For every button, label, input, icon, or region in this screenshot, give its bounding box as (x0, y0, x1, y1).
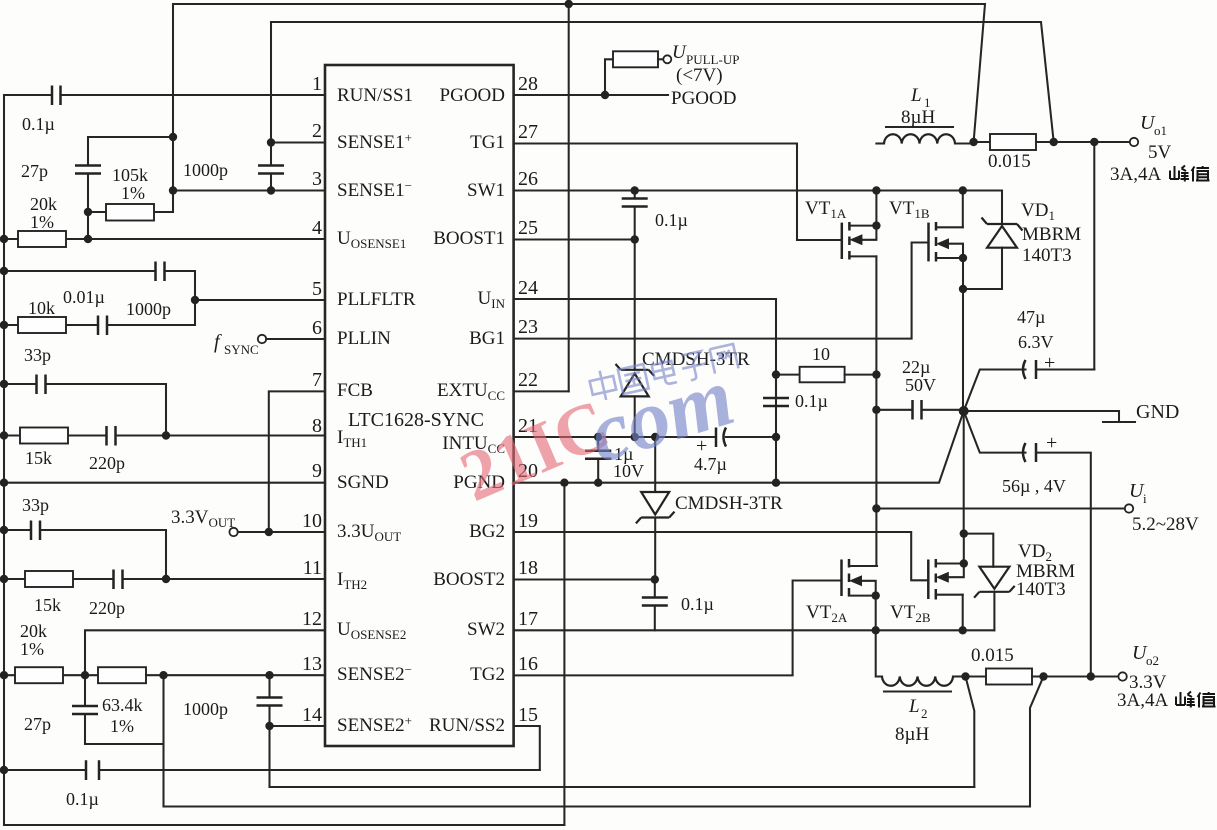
resistor 15k (ITH1) (4, 434, 107, 436)
resistor 20k 1% (divider 2) (4, 674, 98, 676)
resistor 105k 1% (88, 191, 173, 213)
resistor 0.015 sense 2 (966, 675, 987, 677)
capacitor 27p (divider 1) (75, 166, 101, 174)
svg-text:5: 5 (312, 278, 322, 300)
wire pin16 TG2 route to VT2A gate (514, 581, 842, 676)
wire pin5 PLLFLTR row (195, 299, 325, 301)
wire pin25 BOOST1 row (514, 238, 635, 240)
wire GND star to GND terminal (964, 410, 1119, 412)
resistor pull-up (613, 51, 658, 67)
svg-text:18: 18 (518, 557, 538, 579)
capacitor 27p (divider 2) (85, 675, 164, 744)
svg-text:3: 3 (312, 168, 322, 190)
svg-text:PLLFLTR: PLLFLTR (337, 289, 416, 310)
svg-text:SW2: SW2 (467, 619, 505, 640)
capacitor 1u 10V (597, 437, 599, 483)
wire VT2B drain down to SW2 row (962, 595, 964, 631)
wire pin24 UIN row (514, 299, 776, 398)
ground symbol (1103, 411, 1135, 422)
diode CMDSH-3TR (boost1) (621, 374, 649, 397)
junction dots left side (0, 235, 8, 243)
svg-text:0.1µ: 0.1µ (66, 789, 99, 809)
wire Ui input row (876, 507, 1125, 509)
wire kelvin sense2+ return row (270, 786, 975, 788)
svg-text:24: 24 (518, 277, 538, 299)
wire pin15 RUN/SS2 route (514, 726, 540, 770)
svg-text:GND: GND (1136, 401, 1179, 423)
svg-text:BG2: BG2 (469, 521, 505, 542)
svg-text:+: + (1044, 352, 1055, 374)
svg-text:SGND: SGND (337, 472, 389, 493)
wire pin17 SW2 row (514, 629, 995, 631)
capacitor 56u 4V output 2 (964, 411, 1026, 453)
wire kelvin sense2- return row (164, 805, 1031, 807)
svg-text:0.015: 0.015 (971, 645, 1014, 666)
node UPULL-UP terminal (663, 55, 671, 63)
watermark blue chinese characters (588, 341, 739, 403)
svg-text:56µ , 4V: 56µ , 4V (1002, 476, 1066, 496)
svg-text:140T3: 140T3 (1016, 579, 1066, 600)
diode VD1 MBRM140T3 (963, 191, 1002, 290)
resistor 20k 1% (divider 1) (4, 238, 325, 240)
svg-text:0.1µ: 0.1µ (795, 391, 828, 411)
svg-text:1%: 1% (30, 212, 54, 232)
capacitor 22u 50V (876, 409, 912, 411)
svg-text:220p: 220p (89, 598, 125, 618)
wire VT1B drain to SW1 row (962, 191, 964, 228)
svg-text:3A,4A: 3A,4A (1117, 690, 1168, 711)
svg-text:o2: o2 (1146, 653, 1159, 668)
svg-text:63.4k: 63.4k (102, 695, 143, 715)
svg-text:25: 25 (518, 217, 538, 239)
wire top SENSE1- kelvin rail (173, 4, 985, 142)
svg-text:MBRM: MBRM (1022, 224, 1081, 245)
capacitor 220p (ITH2) (114, 570, 123, 590)
capacitor 0.1u boost1 (634, 191, 636, 240)
node Uo2 terminal (1118, 672, 1126, 680)
svg-text:1000p: 1000p (126, 299, 171, 319)
svg-text:SENSE1+: SENSE1+ (337, 130, 412, 153)
svg-text:10k: 10k (28, 298, 55, 318)
svg-text:(<7V): (<7V) (676, 65, 723, 86)
transistor VT2B (927, 560, 930, 600)
svg-text:26: 26 (518, 168, 538, 190)
node Uo1 terminal (1130, 138, 1138, 146)
svg-text:BOOST2: BOOST2 (433, 569, 505, 590)
wire second rail drop to pin2 (270, 22, 272, 191)
wire pin1 RUN/SS1 row (4, 94, 325, 96)
wire pin26 SW1 row (514, 189, 1002, 191)
svg-text:SYNC: SYNC (224, 342, 259, 357)
wire 0.01u row (4, 271, 195, 325)
capacitor 0.01u (156, 262, 165, 282)
svg-text:20k: 20k (30, 194, 57, 214)
IC U1 LTC1628-SYNC body (325, 65, 514, 746)
svg-text:1%: 1% (20, 639, 44, 659)
capacitor 1000p (sense filter 1) (258, 166, 284, 174)
resistor 63.4k 1% (divider 2) (98, 667, 146, 683)
svg-text:28: 28 (518, 73, 538, 95)
inductor L2 8uH (876, 630, 882, 676)
wire VT2A source down to SW2 row (875, 596, 877, 631)
svg-text:2: 2 (312, 120, 322, 142)
svg-text:3A,4A: 3A,4A (1110, 164, 1161, 185)
svg-text:5.2~28V: 5.2~28V (1132, 514, 1199, 535)
diode VD2 MBRM140T3 (964, 534, 994, 567)
inductor L1 8uH (876, 142, 884, 144)
wire pin14 SENSE2+ row (270, 725, 326, 727)
resistor 10k (4, 324, 98, 326)
wire pin27 TG1 route to VT1A gate (514, 144, 842, 241)
capacitor 1000p (PLL filter) (98, 316, 107, 336)
svg-text:15k: 15k (25, 448, 52, 468)
svg-text:15k: 15k (34, 595, 61, 615)
resistor 0.015 sense 1 (974, 141, 990, 143)
svg-text:PGOOD: PGOOD (671, 88, 736, 109)
transistor VT1A (841, 223, 844, 259)
svg-text:i: i (1143, 491, 1147, 506)
svg-text:105k: 105k (112, 165, 148, 185)
svg-text:L: L (910, 85, 922, 106)
svg-text:0.1µ: 0.1µ (681, 594, 714, 614)
svg-text:RUN/SS2: RUN/SS2 (429, 715, 505, 736)
svg-text:14: 14 (302, 704, 322, 726)
capacitor 33p (ITH1) (4, 384, 166, 436)
wire node branch at (173,137) to divider (88, 137, 173, 239)
svg-text:PLLIN: PLLIN (337, 328, 391, 349)
svg-text:1: 1 (312, 73, 322, 95)
wire GND column VD1 to star (962, 289, 964, 411)
wire pin7 FCB row and drop to 3.3Vout (269, 391, 325, 532)
svg-text:TG2: TG2 (470, 664, 505, 685)
capacitor 0.1u (VIN pin) (775, 398, 777, 483)
transistor VT1B (927, 223, 930, 262)
wire pin19 BG2 route to VT2B gate (514, 532, 929, 580)
svg-text:SW1: SW1 (467, 180, 505, 201)
capacitor 0.1u boost2 (654, 580, 656, 631)
svg-text:LTC1628-SYNC: LTC1628-SYNC (348, 409, 484, 431)
wire pin20 PGND row with diagonal to star (514, 411, 964, 483)
capacitor 220p (ITH1) (107, 426, 116, 446)
svg-text:23: 23 (518, 316, 538, 338)
svg-text:50V: 50V (905, 375, 936, 395)
capacitor 47u 6.3V output 1 (964, 370, 1026, 412)
svg-text:o1: o1 (1154, 123, 1167, 138)
capacitor 4.7u tantalum (716, 428, 726, 448)
wire pin12 UOSENSE2 row and drop (85, 630, 325, 675)
wire boost1 column down to CMDSH-3TR (634, 240, 636, 370)
label peak (Chinese) output 1 (1170, 166, 1210, 182)
svg-text:L: L (908, 696, 920, 717)
resistor 15k (ITH2) (4, 578, 114, 580)
label peak (Chinese) output 2 (1176, 692, 1216, 708)
svg-text:BOOST1: BOOST1 (433, 228, 505, 249)
svg-text:11: 11 (303, 557, 322, 579)
svg-text:20k: 20k (20, 621, 47, 641)
svg-text:0.015: 0.015 (988, 151, 1031, 172)
svg-text:4.7µ: 4.7µ (694, 454, 727, 474)
wire VT1A drain VIN rail (875, 256, 877, 566)
svg-text:33p: 33p (24, 345, 51, 365)
svg-text:22µ: 22µ (902, 357, 930, 377)
wire kelvin sense2+ drop (966, 677, 975, 788)
wire pin21 INTVCC row (514, 436, 716, 438)
wire pin22 EXTUCC row (514, 390, 569, 392)
node fSYNC terminal (258, 335, 266, 343)
junction dots channel 2 (960, 529, 968, 537)
node 3.3VOUT terminal (229, 528, 237, 536)
capacitor 33p (ITH2) (4, 530, 166, 579)
svg-text:15: 15 (518, 704, 538, 726)
wire pin3 SENSE1- row (173, 189, 325, 191)
wire VT1B source down to VD1 anode row (962, 258, 964, 289)
transistor VT2A (840, 560, 843, 597)
node Ui terminal (1125, 504, 1133, 512)
svg-text:6.3V: 6.3V (1018, 332, 1054, 352)
wire pin9 SGND row (4, 482, 325, 484)
svg-text:CMDSH-3TR: CMDSH-3TR (675, 493, 783, 514)
svg-text:10: 10 (812, 344, 830, 364)
wire soft-start2 row with 0.1u (4, 769, 540, 771)
svg-text:140T3: 140T3 (1022, 245, 1072, 266)
wire pin28 PGOOD row (514, 94, 668, 96)
wire kelvin sense2- drop (1030, 677, 1044, 807)
wire GND star column down (963, 411, 965, 534)
svg-text:0.1µ: 0.1µ (655, 210, 688, 230)
svg-text:8: 8 (312, 415, 322, 437)
capacitor 1000p (sense filter 2) (268, 675, 270, 787)
wire PGND drop to bottom rail (563, 483, 565, 825)
svg-text:12: 12 (302, 608, 322, 630)
wire pull-up left leg (605, 59, 613, 95)
svg-text:16: 16 (518, 653, 538, 675)
svg-text:1%: 1% (110, 716, 134, 736)
wire pin10 3.3UOUT row (238, 531, 325, 533)
resistor 10 (VIN filter) (776, 374, 800, 376)
svg-text:FCB: FCB (337, 380, 373, 401)
svg-text:22: 22 (518, 369, 538, 391)
svg-text:TG1: TG1 (470, 132, 505, 153)
wire EXTVCC riser to top rail (568, 4, 570, 391)
svg-text:27: 27 (518, 121, 538, 143)
svg-text:+: + (1046, 432, 1057, 454)
wire bottom ground return (4, 824, 564, 826)
wire top sense rail to pin3 (172, 4, 174, 191)
wire VT1A source to SW1 row (875, 191, 877, 226)
svg-text:1%: 1% (121, 183, 145, 203)
svg-text:SENSE1−: SENSE1− (337, 178, 412, 201)
capacitor 0.1u (soft-start 2) (86, 760, 99, 780)
wire 47u riser to Uo1 (1093, 142, 1095, 370)
svg-text:0.01µ: 0.01µ (63, 287, 105, 307)
wire second SENSE1+ kelvin rail (271, 22, 1054, 142)
wire pin23 BG1 route to VT1B gate (514, 243, 929, 339)
diode CMDSH-3TR (boost2) (654, 437, 656, 492)
svg-text:2: 2 (921, 706, 928, 721)
svg-text:U: U (672, 42, 687, 63)
svg-text:0.1µ: 0.1µ (22, 114, 55, 134)
capacitor 0.1u (soft-start 1) (52, 86, 61, 106)
svg-text:9: 9 (312, 460, 322, 482)
wire left ground rail (3, 95, 5, 825)
svg-text:4: 4 (312, 217, 322, 239)
svg-text:SENSE2−: SENSE2− (337, 662, 412, 685)
svg-text:17: 17 (518, 608, 538, 630)
wire pin2 SENSE1+ row (271, 141, 325, 143)
svg-text:BG1: BG1 (469, 328, 505, 349)
junction dots center (594, 433, 602, 441)
svg-text:27p: 27p (21, 161, 48, 181)
svg-text:220p: 220p (89, 453, 125, 473)
svg-text:47µ: 47µ (1017, 307, 1045, 327)
svg-text:PGOOD: PGOOD (440, 85, 505, 106)
svg-text:7: 7 (312, 369, 322, 391)
svg-text:6: 6 (312, 317, 322, 339)
svg-text:1000p: 1000p (183, 160, 228, 180)
svg-text:SENSE2+: SENSE2+ (337, 713, 412, 736)
wire pin18 BOOST2 row (514, 578, 655, 580)
svg-text:19: 19 (518, 510, 538, 532)
junction dots channel 1 (565, 0, 573, 8)
wire 63.4k right leg down to sense2- kelvin row (162, 675, 164, 806)
svg-text:27p: 27p (24, 714, 51, 734)
wire pin6 PLLIN row (266, 338, 325, 340)
svg-text:13: 13 (302, 653, 322, 675)
wire VT2B source to GND column (963, 534, 965, 564)
svg-text:1000p: 1000p (183, 699, 228, 719)
svg-text:33p: 33p (22, 495, 49, 515)
svg-text:5V: 5V (1148, 142, 1172, 163)
svg-text:8µH: 8µH (895, 724, 929, 745)
svg-text:RUN/SS1: RUN/SS1 (337, 85, 413, 106)
svg-text:8µH: 8µH (901, 107, 935, 128)
svg-text:10: 10 (302, 510, 322, 532)
